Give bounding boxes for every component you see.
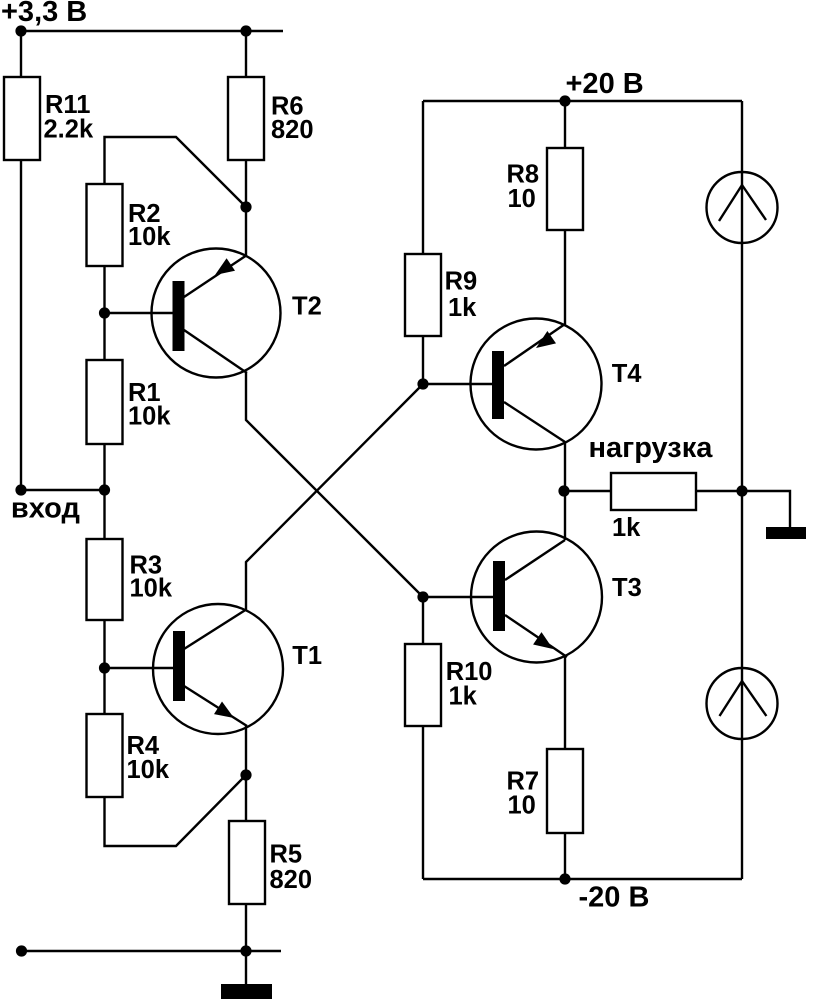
wire R8 bottom to T4 emitter (564, 230, 566, 325)
wire bottom rail (22, 950, 282, 952)
wire R4 bottom elbow to T1 emitter node (105, 775, 247, 846)
svg-text:R5: R5 (270, 841, 303, 869)
svg-text:10k: 10k (130, 575, 173, 603)
svg-text:нагрузка: нагрузка (589, 432, 714, 464)
node dot T1 base (99, 662, 110, 673)
wire right rail through current sources (741, 101, 743, 879)
resistor R2 (87, 184, 123, 266)
svg-text:+20 В: +20 В (566, 68, 644, 100)
node dot T1 emitter (240, 769, 251, 780)
svg-text:10k: 10k (128, 223, 171, 251)
wire T1 base (105, 667, 174, 669)
node dot R6 bottom / T2 emitter (240, 201, 251, 212)
svg-text:+3,3 В: +3,3 В (1, 0, 87, 28)
svg-text:1k: 1k (612, 514, 641, 542)
node dot +3.3V (15, 25, 26, 36)
wire T4 collector to load node (564, 442, 566, 540)
wire R5 bottom to bottom rail (245, 904, 247, 951)
svg-text:1k: 1k (448, 294, 477, 322)
node dot R6 top (240, 25, 251, 36)
transistor T4 (471, 319, 602, 450)
wire T3 base node to R10 (422, 597, 424, 644)
svg-text:вход: вход (11, 493, 80, 525)
resistor R6 (228, 77, 264, 160)
ground bottom (221, 984, 272, 999)
resistor R7 (547, 749, 583, 833)
wire left rail top (to R11) (20, 31, 22, 77)
svg-text:T1: T1 (292, 642, 322, 670)
transistor T3 (471, 532, 602, 663)
wire R9 bottom to T4 base node (422, 336, 424, 384)
wire T1 collector up / cross to T4 base (246, 384, 423, 609)
wire T3 base (423, 596, 493, 598)
wire T2 base (105, 312, 174, 314)
current source I1 (707, 172, 778, 243)
resistor R11 (4, 77, 40, 160)
resistor R1 (87, 360, 123, 444)
wire R6 top drop (245, 31, 247, 77)
wire left rail (R11 bottom to input node) (20, 160, 22, 490)
current source I2 (707, 668, 778, 739)
node dot bottom left terminal (16, 945, 27, 956)
wire R1 bottom to input node (103, 444, 105, 539)
resistor R4 (87, 714, 123, 797)
wire input horizontal (21, 489, 105, 491)
svg-text:T4: T4 (612, 360, 643, 388)
svg-text:1k: 1k (449, 683, 478, 711)
wire load node left (564, 490, 611, 492)
resistor R10 (405, 644, 441, 726)
wire +20V rail (423, 100, 742, 102)
node dot -20V (559, 873, 570, 884)
wire T1 emitter to node (245, 726, 247, 775)
wire right ground stub (742, 491, 790, 528)
node dot bottom rail (240, 945, 251, 956)
wire R6 bottom to node (245, 160, 247, 207)
resistor R8 (547, 148, 583, 230)
svg-text:10k: 10k (127, 756, 170, 784)
wire R2 bottom to T2 base node (103, 266, 105, 360)
wire load right to right rail (696, 490, 742, 492)
svg-text:-20 В: -20 В (579, 881, 650, 913)
wire R8 drop (564, 101, 566, 148)
svg-text:T3: T3 (612, 574, 642, 602)
wire -20V rail (423, 878, 742, 880)
resistor R3 (87, 539, 123, 620)
svg-text:T2: T2 (292, 293, 322, 321)
wire node to R5 (245, 775, 247, 821)
node dot load right (736, 485, 747, 496)
wire ground stub bottom (245, 951, 247, 985)
ground right (766, 527, 806, 539)
svg-text:820: 820 (270, 866, 313, 894)
transistor T1 (153, 604, 283, 734)
node dot +20V (559, 95, 570, 106)
node dot input left (15, 484, 26, 495)
svg-text:10: 10 (508, 185, 536, 213)
svg-text:2.2k: 2.2k (44, 116, 94, 144)
wire node to T2 emitter (245, 207, 247, 256)
svg-text:10: 10 (508, 791, 536, 819)
node dot input right (99, 484, 110, 495)
svg-text:10k: 10k (128, 403, 171, 431)
node dot T4 base (417, 378, 428, 389)
resistor R5 (229, 821, 265, 904)
svg-text:R9: R9 (445, 268, 478, 296)
wire R10 bottom to -20V rail (422, 726, 424, 879)
resistor load 1k (611, 473, 696, 510)
wire R2 top elbow to R6 bottom node (105, 137, 247, 207)
wire T4 base (423, 383, 492, 385)
wire T3 emitter to R7 (564, 656, 566, 749)
wire +3.3V top rail (21, 30, 283, 32)
node dot T2 base (99, 307, 110, 318)
node dot load left (558, 485, 569, 496)
wire T2 collector down / cross to T3 base (246, 373, 423, 597)
node dot T3 base (417, 591, 428, 602)
resistor R9 (405, 254, 441, 336)
wire R3 bottom to T1 base node (103, 620, 105, 714)
transistor T2 (152, 249, 281, 378)
wire R9 drop from +20V rail (422, 101, 424, 254)
svg-text:820: 820 (271, 116, 314, 144)
wire R7 bottom to -20V rail (564, 833, 566, 879)
